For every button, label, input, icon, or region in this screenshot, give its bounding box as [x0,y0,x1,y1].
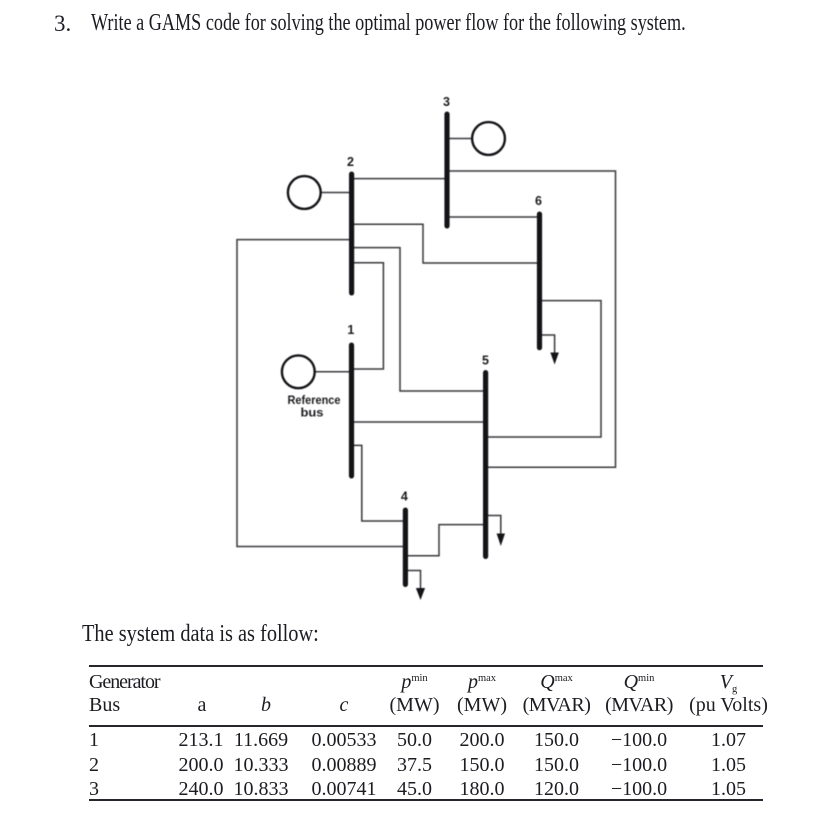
svg-text:bus: bus [301,408,324,420]
svg-text:1: 1 [347,323,354,337]
svg-text:6: 6 [535,194,542,208]
svg-text:4: 4 [401,490,408,504]
svg-text:3: 3 [443,95,450,109]
svg-text:2: 2 [347,155,354,169]
svg-text:5: 5 [482,354,489,368]
svg-text:Reference: Reference [288,395,341,407]
